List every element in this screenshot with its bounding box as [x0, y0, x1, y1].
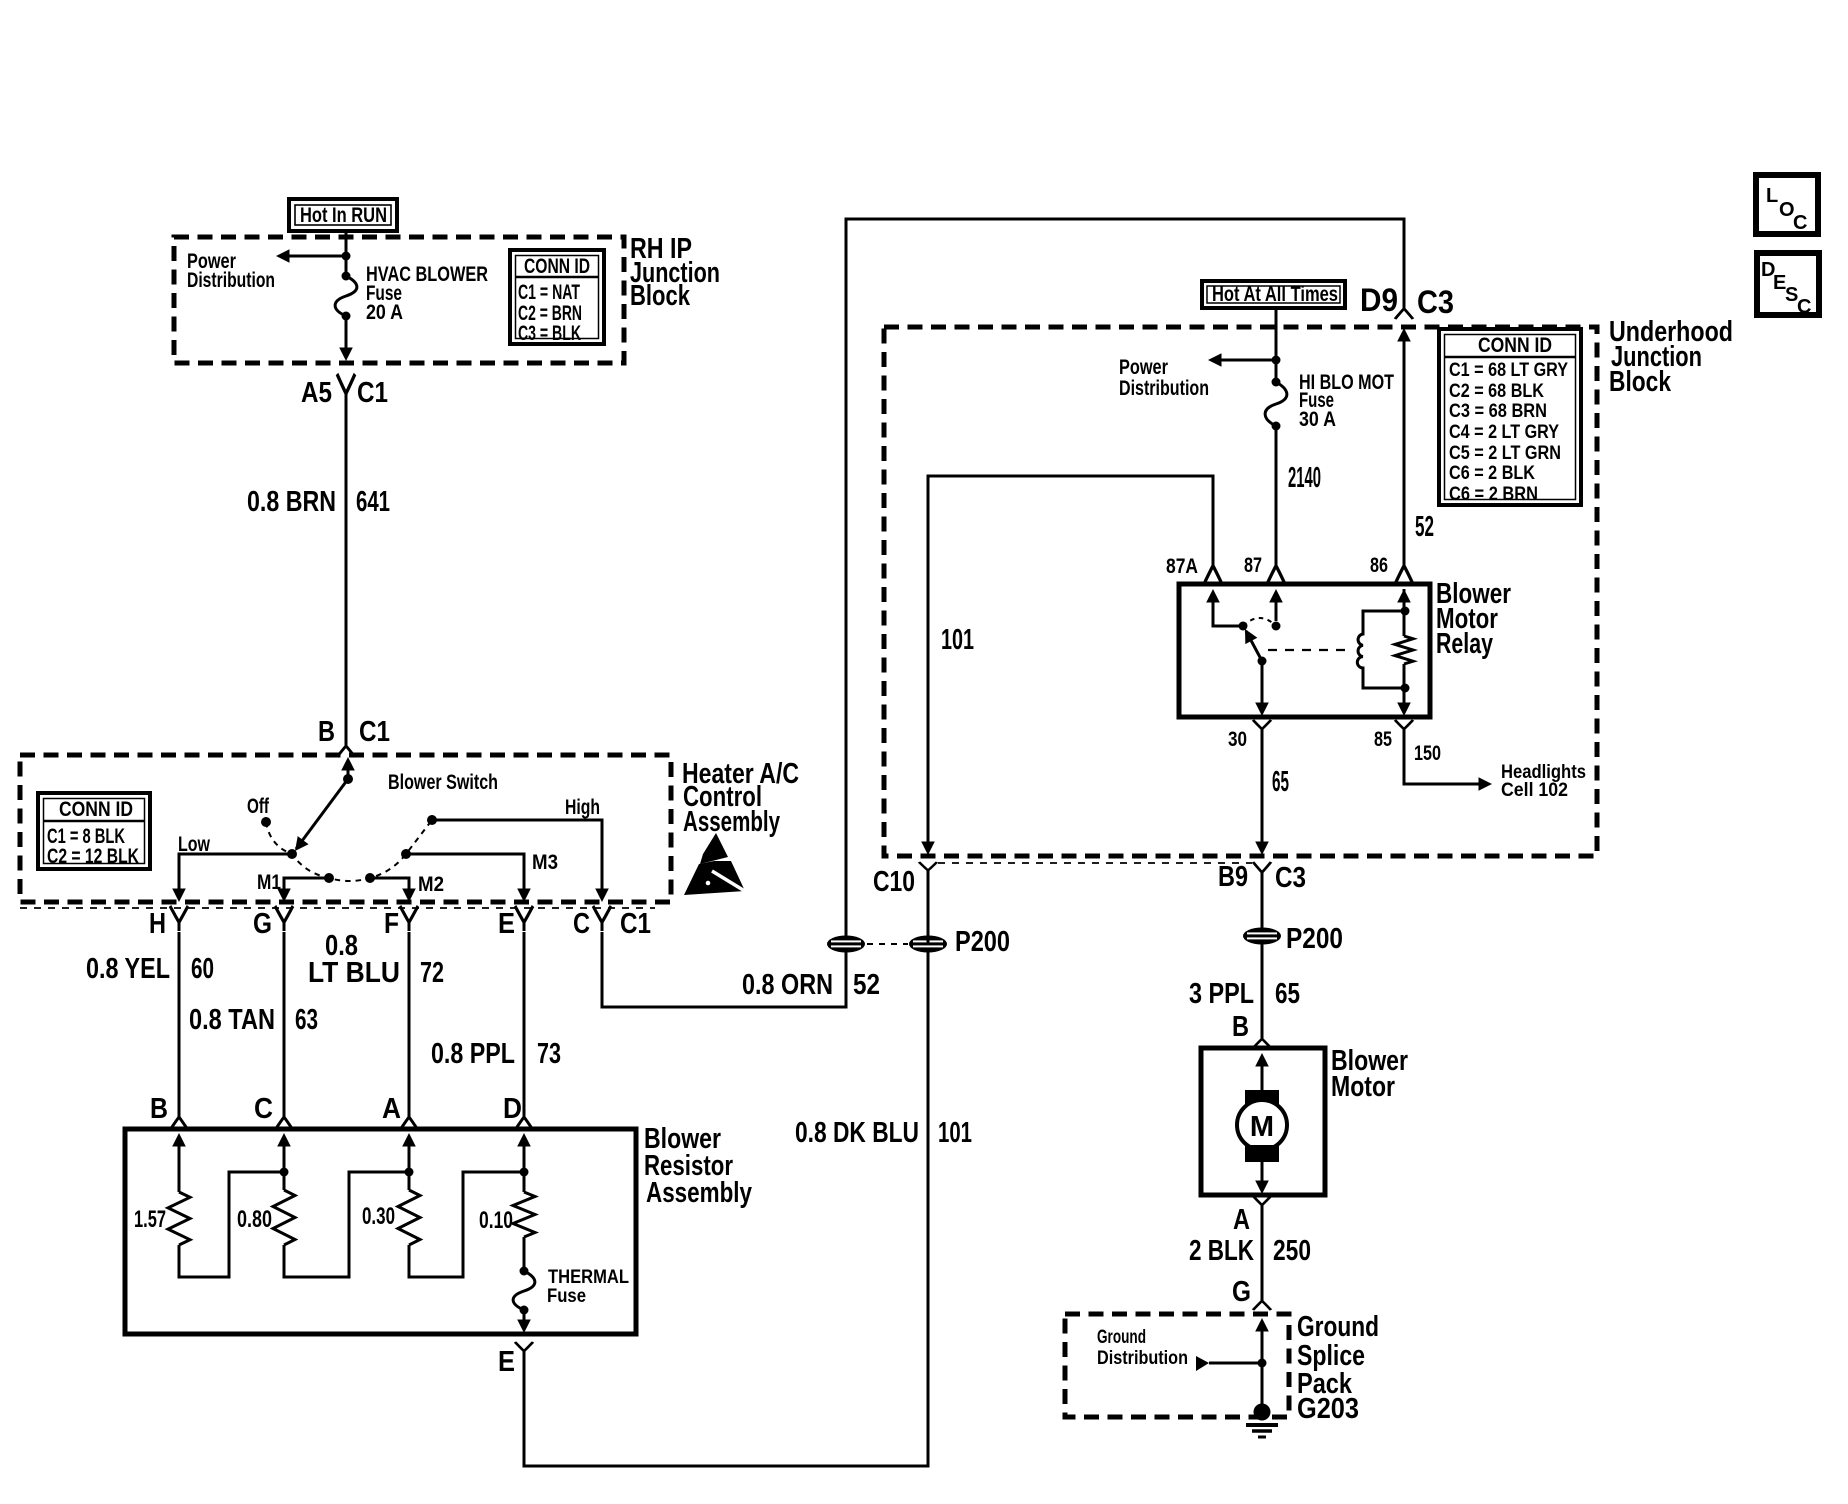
label Ground Splice Pack G203: [1297, 1311, 1379, 1425]
wire thermal fuse to pin E exit: [523, 1310, 526, 1320]
svg-text:D: D: [503, 1093, 522, 1125]
connector face line C3 (underhood): [938, 862, 1252, 864]
svg-text:2 BLK: 2 BLK: [1189, 1235, 1254, 1267]
svg-text:63: 63: [295, 1004, 318, 1036]
svg-text:Relay: Relay: [1436, 628, 1493, 660]
node coil top junction: [1401, 607, 1410, 616]
wire motor B pin into box: [1255, 1053, 1269, 1067]
connector table CONN ID (heater): C1=8 BLK C2=12 BLK: [38, 793, 150, 869]
svg-text:Distribution: Distribution: [187, 269, 275, 292]
wire armature to pin 30: [1261, 661, 1264, 704]
svg-text:C1 = NAT: C1 = NAT: [518, 281, 580, 304]
svg-text:Off: Off: [247, 795, 270, 818]
svg-text:THERMAL: THERMAL: [548, 1267, 629, 1288]
connector pin C10: [927, 874, 930, 944]
connector pin A5 / C1: [337, 374, 355, 404]
grommet P200 (DK BLU wire): [909, 936, 947, 953]
wire 0.10 to thermal fuse: [523, 1237, 526, 1271]
wire pin C into box: [277, 1133, 291, 1147]
node junction at A column: [405, 1168, 414, 1177]
grommet P200 (ORN wire): [827, 936, 865, 953]
node Off position: [261, 817, 271, 827]
svg-text:Fuse: Fuse: [547, 1286, 586, 1307]
svg-text:B: B: [1232, 1011, 1249, 1043]
svg-text:C6 = 2 BRN: C6 = 2 BRN: [1449, 484, 1538, 505]
connector pin C / C1: [593, 906, 611, 931]
svg-text:Block: Block: [1609, 366, 1672, 398]
node M1 position: [324, 873, 334, 883]
svg-text:0.8 TAN: 0.8 TAN: [189, 1004, 275, 1036]
relay coil: [1357, 611, 1407, 688]
svg-text:CONN ID: CONN ID: [1478, 334, 1552, 357]
svg-text:Hot At All Times: Hot At All Times: [1212, 283, 1338, 306]
svg-text:20 A: 20 A: [366, 301, 403, 324]
motor M armature symbol: [1237, 1090, 1287, 1162]
wire Hot In RUN to fuse: [345, 231, 348, 276]
wire 52 into underhood block: [1397, 328, 1411, 342]
Blower Resistor Assembly enclosure: [125, 1129, 636, 1334]
connector pin D (resistor assembly): [515, 1110, 533, 1130]
connector table CONN ID (RH IP): C1=NAT C2=BRN C3=BLK: [510, 250, 604, 345]
connector pin B / C1 (heater control): [337, 740, 355, 757]
svg-text:641: 641: [356, 486, 390, 518]
connector pin A (resistor assembly): [400, 1110, 418, 1130]
svg-text:H: H: [149, 908, 166, 940]
wire 0.8 BRN 641: [345, 404, 348, 740]
wire Low to pin H: [179, 854, 292, 890]
wire 1.57 bottom to C junction: [179, 1172, 284, 1277]
label Blower Motor: [1331, 1045, 1408, 1103]
svg-text:Motor: Motor: [1331, 1071, 1395, 1103]
svg-text:250: 250: [1273, 1235, 1311, 1267]
svg-text:Power: Power: [1119, 356, 1168, 379]
connector pin A (blower motor): [1253, 1196, 1271, 1210]
svg-text:L: L: [1766, 185, 1778, 207]
connector pin 85 (relay): [1395, 720, 1413, 734]
connector pin D9 / C3 (underhood entry): [1395, 303, 1413, 319]
wire M1 to pin G: [284, 878, 329, 890]
svg-text:P200: P200: [1286, 923, 1343, 955]
svg-text:Hot In RUN: Hot In RUN: [300, 204, 387, 227]
svg-text:C: C: [573, 908, 590, 940]
svg-text:0.8 DK BLU: 0.8 DK BLU: [795, 1117, 919, 1149]
wire G pin into ground box: [1255, 1318, 1269, 1332]
wire 65 relay 30 to B9: [1261, 733, 1264, 843]
svg-text:65: 65: [1272, 766, 1289, 798]
wire dashed grommet link: [867, 943, 908, 945]
relay actuation link (dashed): [1268, 649, 1350, 651]
svg-text:150: 150: [1414, 742, 1441, 765]
svg-text:30: 30: [1228, 728, 1247, 751]
svg-text:0.10: 0.10: [479, 1207, 513, 1234]
wire pin B into box: [172, 1133, 186, 1147]
wire 0.80 bottom to A junction: [284, 1172, 409, 1277]
svg-text:60: 60: [191, 953, 214, 985]
grommet P200 (PPL wire): [1243, 928, 1281, 945]
svg-text:73: 73: [537, 1038, 561, 1070]
svg-text:C1: C1: [620, 908, 651, 940]
connector pin 87 (relay): [1267, 556, 1285, 584]
svg-text:C6 = 2 BLK: C6 = 2 BLK: [1449, 463, 1535, 484]
wire relay pin 87 to NO contact: [1269, 589, 1283, 603]
svg-text:0.30: 0.30: [362, 1203, 395, 1230]
svg-text:0.8 ORN: 0.8 ORN: [742, 969, 833, 1001]
svg-text:Cell 102: Cell 102: [1501, 780, 1568, 801]
svg-text:52: 52: [1415, 511, 1434, 543]
svg-text:85: 85: [1374, 728, 1392, 751]
fuse HVAC BLOWER Fuse 20 A: [335, 272, 357, 321]
svg-text:2140: 2140: [1288, 462, 1321, 494]
relay Blower Motor Relay enclosure: [1179, 584, 1430, 717]
svg-text:C: C: [1793, 212, 1807, 234]
connector pin H: [170, 906, 188, 931]
label Ground Distribution: [1097, 1327, 1188, 1369]
switch travel arc (dashed): [266, 820, 432, 881]
svg-text:D9: D9: [1360, 282, 1398, 318]
wire 150 to headlights: [1404, 733, 1480, 784]
wire fuse to A5 exit: [345, 316, 348, 348]
svg-text:B: B: [150, 1093, 168, 1125]
wire M3 to pin E: [406, 854, 524, 890]
node junction at D column: [520, 1168, 529, 1177]
svg-text:B9: B9: [1218, 861, 1248, 893]
svg-text:Assembly: Assembly: [646, 1177, 752, 1209]
svg-text:Ground: Ground: [1097, 1327, 1146, 1348]
svg-text:A: A: [382, 1093, 401, 1125]
connector pin B9 / C3: [1253, 862, 1271, 878]
wire to Power Distribution (underhood): [1214, 359, 1276, 362]
svg-text:C3: C3: [1417, 284, 1454, 320]
label Power Distribution: [187, 250, 275, 292]
connector pin C (resistor assembly): [275, 1110, 293, 1130]
label THERMAL Fuse: [547, 1267, 629, 1307]
resistor 0.10: [513, 1192, 535, 1237]
svg-text:High: High: [565, 796, 600, 819]
wire 0.8 YEL 60 (H to resistor B): [178, 932, 181, 1112]
wire pin D into box: [517, 1133, 531, 1147]
node High position: [427, 815, 437, 825]
Underhood Junction Block dashed enclosure: [884, 327, 1597, 856]
RH IP Junction Block dashed enclosure: [174, 237, 624, 363]
svg-text:P200: P200: [955, 926, 1010, 958]
svg-text:C4 = 2 LT GRY: C4 = 2 LT GRY: [1449, 422, 1559, 443]
wire relay pin 86 down: [1397, 589, 1411, 603]
svg-text:Distribution: Distribution: [1119, 377, 1209, 400]
svg-text:C: C: [254, 1093, 273, 1125]
svg-text:0.8 PPL: 0.8 PPL: [431, 1038, 515, 1070]
label HVAC BLOWER Fuse 20 A: [366, 263, 488, 324]
wire 0.30 bottom to D junction: [409, 1172, 524, 1277]
label Blower Motor Relay: [1436, 578, 1511, 660]
wire Hot At All Times feed: [1275, 308, 1278, 382]
node coil bottom junction: [1401, 684, 1410, 693]
wire switch feed from pin B: [341, 757, 355, 771]
svg-text:E: E: [498, 908, 515, 940]
svg-text:C3 = BLK: C3 = BLK: [518, 322, 581, 345]
resistor 0.30: [398, 1190, 420, 1245]
wire 0.8 ORN 52 (heater C to underhood D9): [602, 219, 1404, 1007]
svg-text:101: 101: [941, 624, 974, 656]
svg-text:Block: Block: [630, 280, 691, 312]
node NO contact 87: [1272, 622, 1281, 631]
connector pin B (resistor assembly): [170, 1110, 188, 1130]
legend LOC box: [1756, 175, 1818, 234]
node power distribution tap junction (underhood): [1272, 356, 1281, 365]
svg-text:65: 65: [1275, 978, 1300, 1010]
connector face line C1 (heater control): [20, 907, 655, 909]
svg-text:87: 87: [1244, 554, 1262, 577]
wire 2140 fuse to relay 87: [1275, 426, 1278, 556]
node armature pivot: [1258, 657, 1267, 666]
svg-text:M1: M1: [257, 871, 281, 894]
svg-text:B: B: [318, 716, 335, 748]
ESD sensitive device symbol: [684, 833, 748, 895]
svg-text:G: G: [253, 908, 272, 940]
svg-text:G203: G203: [1297, 1393, 1359, 1425]
node M3 position: [401, 849, 411, 859]
switch contact throw arc (dashed): [1243, 618, 1276, 626]
node Hot In RUN: [289, 199, 397, 231]
svg-text:M2: M2: [418, 873, 444, 896]
svg-text:C1 = 68 LT GRY: C1 = 68 LT GRY: [1449, 360, 1568, 381]
svg-text:0.8 BRN: 0.8 BRN: [247, 486, 336, 518]
legend DESC box: [1757, 253, 1819, 318]
motor Blower Motor enclosure: [1201, 1048, 1325, 1195]
connector table CONN ID (underhood): [1439, 329, 1581, 505]
ground G203 symbol: [1246, 1404, 1278, 1438]
svg-text:52: 52: [853, 969, 880, 1001]
svg-text:C2 = 68 BLK: C2 = 68 BLK: [1449, 381, 1544, 402]
connector pin F: [400, 906, 418, 931]
wire 3 PPL 65 (B9 to blower motor B): [1261, 878, 1264, 1034]
connector pin G (ground splice pack): [1253, 1296, 1271, 1310]
wire M2 to pin F: [370, 878, 409, 890]
svg-text:86: 86: [1370, 554, 1388, 577]
resistor (relay suppression): [1395, 636, 1413, 664]
wire 2 BLK 250 (motor A to ground splice): [1261, 1209, 1264, 1296]
relay armature: [1246, 631, 1262, 661]
wire relay pin 87A to NC contact: [1206, 589, 1220, 603]
wire 101 branch (87A to C10): [928, 476, 1213, 847]
Ground Splice Pack G203 dashed enclosure: [1065, 1314, 1289, 1417]
blower switch wiper arm: [296, 779, 348, 849]
wire High to pin C: [432, 820, 602, 890]
node Low position: [287, 849, 297, 859]
wire pin A into box: [402, 1133, 416, 1147]
node power distribution tap junction: [342, 252, 351, 261]
connector pin B (blower motor): [1253, 1034, 1271, 1048]
node NC contact 87A: [1239, 622, 1248, 631]
svg-text:M: M: [1250, 1111, 1274, 1143]
svg-text:72: 72: [420, 957, 444, 989]
svg-text:G: G: [1232, 1276, 1251, 1308]
resistor 0.80: [273, 1190, 295, 1245]
connector pin 86 (relay): [1395, 556, 1413, 584]
wire 0.8 TAN 63 (G to resistor C): [283, 932, 286, 1112]
svg-text:CONN ID: CONN ID: [524, 255, 590, 278]
wire resistor E to splice path (bottom run): [524, 952, 928, 1466]
label Power Distribution (underhood): [1119, 356, 1209, 400]
wire ground distribution branch: [1196, 1356, 1209, 1371]
connector pin 87A (relay): [1204, 556, 1222, 584]
label Blower Resistor Assembly: [644, 1123, 752, 1209]
svg-text:30 A: 30 A: [1299, 408, 1336, 431]
svg-text:C1: C1: [359, 716, 390, 748]
node M2 position: [365, 873, 375, 883]
resistor 1.57: [168, 1192, 190, 1245]
svg-text:A5: A5: [301, 377, 332, 409]
svg-text:C: C: [1797, 296, 1811, 318]
connector pin 30 (relay): [1253, 720, 1271, 734]
svg-text:C10: C10: [873, 866, 915, 898]
svg-text:0.8 YEL: 0.8 YEL: [86, 953, 170, 985]
svg-text:3 PPL: 3 PPL: [1189, 978, 1254, 1010]
svg-text:Blower Switch: Blower Switch: [388, 771, 498, 794]
connector pin G: [275, 906, 293, 931]
wire motor to A pin: [1261, 1162, 1264, 1182]
svg-text:Ground: Ground: [1297, 1311, 1379, 1343]
svg-text:M3: M3: [532, 851, 558, 874]
wire 0.8 LT BLU 72 (F to resistor A): [408, 932, 411, 1112]
svg-text:87A: 87A: [1166, 555, 1198, 578]
svg-text:C3 = 68 BRN: C3 = 68 BRN: [1449, 401, 1547, 422]
label Headlights Cell 102: [1501, 762, 1586, 801]
svg-text:F: F: [384, 908, 399, 940]
node Hot At All Times: [1202, 281, 1345, 308]
svg-text:CONN ID: CONN ID: [59, 798, 133, 821]
svg-text:0.80: 0.80: [237, 1206, 272, 1233]
label Underhood Junction Block: [1609, 316, 1733, 398]
svg-text:LT BLU: LT BLU: [308, 957, 400, 989]
svg-text:1.57: 1.57: [134, 1206, 166, 1233]
Heater A/C Control Assembly dashed enclosure: [20, 755, 671, 902]
connector pin E: [515, 906, 533, 931]
label RH IP Junction Block: [630, 233, 720, 312]
connector pin E (resistor assembly bottom): [515, 1342, 533, 1356]
label Heater A/C Control Assembly: [682, 758, 799, 838]
label HI BLO MOT Fuse 30 A: [1299, 371, 1394, 431]
fuse THERMAL Fuse: [513, 1267, 535, 1315]
svg-text:E: E: [498, 1346, 515, 1378]
svg-text:C3: C3: [1275, 862, 1306, 894]
node switch common: [343, 774, 353, 784]
fuse HI BLO MOT Fuse 30 A: [1265, 378, 1287, 431]
svg-text:A: A: [1233, 1204, 1250, 1236]
svg-text:101: 101: [938, 1117, 972, 1149]
svg-text:C1: C1: [357, 377, 388, 409]
node junction at C column: [280, 1168, 289, 1177]
svg-text:Assembly: Assembly: [683, 806, 780, 838]
svg-text:C2 = 12 BLK: C2 = 12 BLK: [47, 845, 139, 868]
wire to Power Distribution: [282, 255, 346, 258]
svg-text:C5 = 2 LT GRN: C5 = 2 LT GRN: [1449, 443, 1561, 464]
node ground splice junction: [1258, 1359, 1267, 1368]
wire 0.8 PPL 73 (E to resistor D): [523, 932, 526, 1112]
svg-text:Distribution: Distribution: [1097, 1348, 1188, 1369]
